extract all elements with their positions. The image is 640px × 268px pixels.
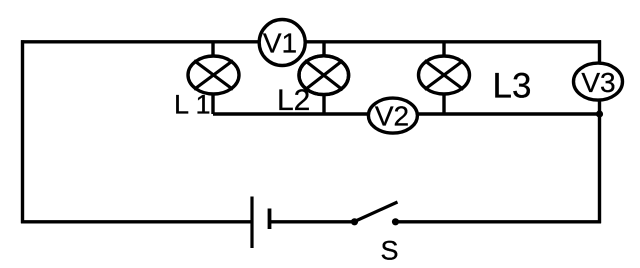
- svg-text:L3: L3: [493, 67, 532, 106]
- svg-text:V1: V1: [263, 28, 297, 59]
- svg-text:L 1: L 1: [174, 90, 211, 120]
- svg-text:V3: V3: [581, 67, 615, 98]
- svg-text:S: S: [381, 236, 399, 266]
- svg-text:L2: L2: [277, 84, 310, 117]
- svg-text:V2: V2: [375, 101, 409, 132]
